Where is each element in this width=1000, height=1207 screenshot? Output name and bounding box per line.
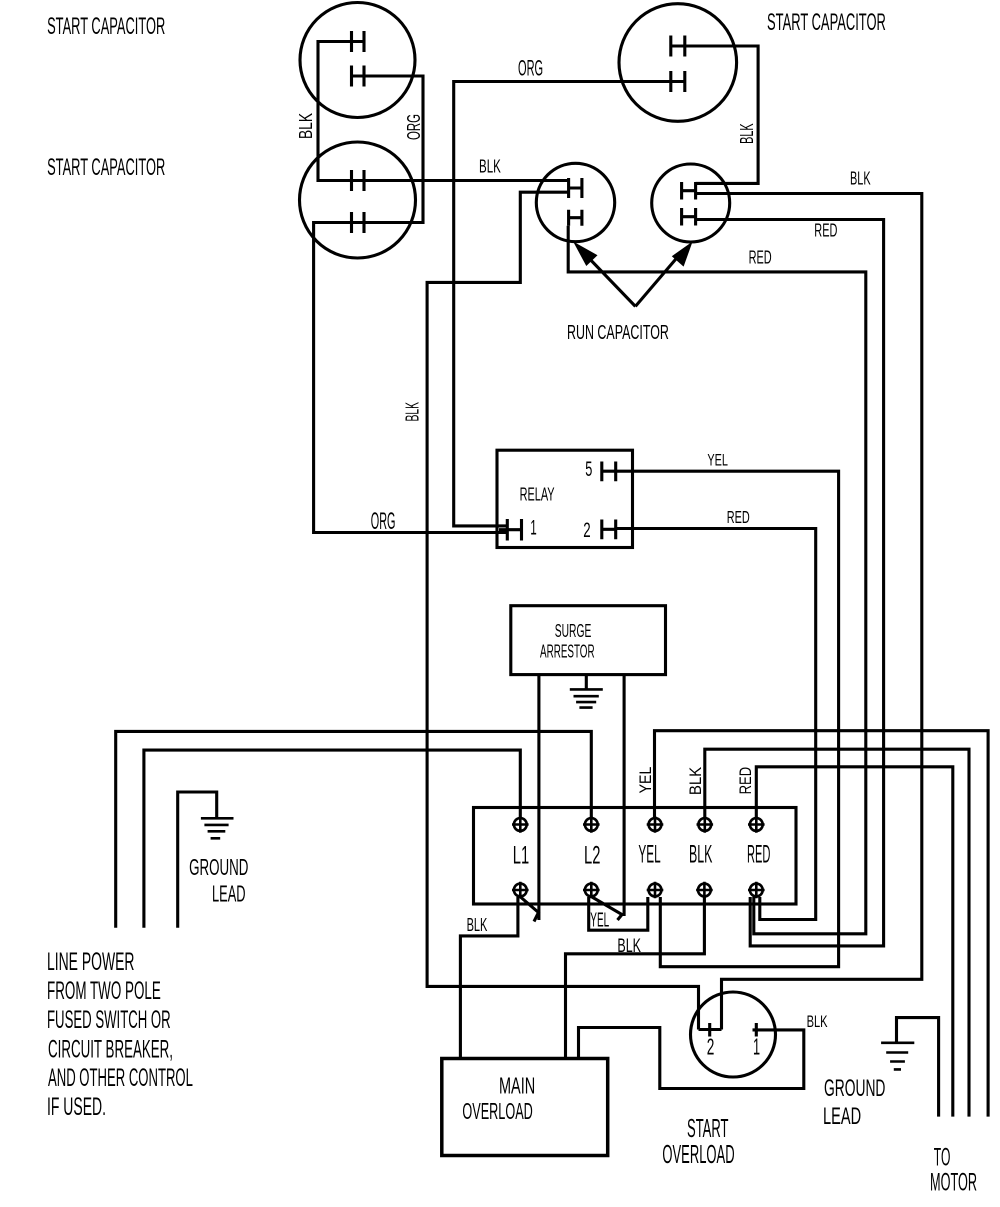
svg-text:1: 1 — [753, 1033, 760, 1059]
arrow to RC2 — [635, 253, 681, 306]
svg-text:BLK: BLK — [850, 169, 871, 189]
wire ORG C1-B to C2-B — [364, 76, 423, 223]
wire ground lead (left) — [178, 792, 217, 928]
svg-text:YEL: YEL — [707, 451, 728, 470]
run capacitor RC2 (right small circle) — [652, 164, 730, 242]
wire BLK terminal bottom to main overload — [566, 897, 705, 1059]
svg-text:ORG: ORG — [371, 508, 396, 535]
svg-text:RED: RED — [747, 841, 770, 869]
wire BLK RC1 top to start overload pin 2 (long left vertical) — [427, 192, 698, 1029]
svg-text:START CAPACITOR: START CAPACITOR — [47, 13, 165, 40]
start capacitor C2 (mid-left circle) — [300, 142, 416, 258]
svg-text:LEAD: LEAD — [823, 1103, 861, 1130]
terminal RED top — [748, 816, 765, 833]
svg-text:START CAPACITOR: START CAPACITOR — [47, 154, 165, 181]
svg-text:START CAPACITOR: START CAPACITOR — [767, 9, 886, 36]
wire RED RC1 bottom to RED terminal — [568, 226, 866, 934]
wire L1 line feed — [144, 750, 520, 928]
svg-text:BLK: BLK — [689, 841, 713, 869]
svg-text:ORG: ORG — [404, 114, 424, 140]
wire BLK C3-A to RC2 top — [685, 46, 758, 183]
svg-text:YEL: YEL — [638, 841, 660, 869]
svg-text:BLK: BLK — [807, 1013, 828, 1031]
svg-text:FROM TWO POLE: FROM TWO POLE — [47, 977, 161, 1005]
surge arrestor box — [511, 606, 666, 675]
ground symbol (left) — [201, 818, 234, 838]
svg-text:RED: RED — [814, 221, 837, 241]
start capacitor C3 (top-right circle) — [619, 4, 737, 122]
capacitor terminal C3-B — [671, 71, 685, 92]
terminal RED bottom — [748, 882, 765, 899]
svg-text:AND OTHER CONTROL: AND OTHER CONTROL — [48, 1064, 193, 1092]
capacitor terminal RC1-bottom — [569, 210, 582, 226]
capacitor terminal RC2-bottom — [682, 208, 696, 226]
svg-text:BLK: BLK — [617, 935, 641, 957]
wire BLK RC2 top to start overload pin 2 (far right) — [696, 194, 922, 1030]
svg-text:BLK: BLK — [403, 402, 423, 422]
relay pin 2 contact — [602, 520, 616, 540]
svg-text:MAIN: MAIN — [499, 1073, 535, 1099]
capacitor terminal C2-B — [352, 212, 365, 233]
svg-text:BLK: BLK — [296, 113, 316, 139]
wire L2 blade to surge lead — [592, 897, 622, 920]
terminal BLK top — [697, 816, 714, 833]
terminal YEL top — [647, 816, 664, 833]
svg-text:RUN CAPACITOR: RUN CAPACITOR — [567, 321, 669, 344]
svg-text:ARRESTOR: ARRESTOR — [540, 642, 595, 662]
wire main overload to start overload pin 1 — [579, 1028, 804, 1089]
start overload pin 2 — [699, 1023, 722, 1037]
svg-text:LINE POWER: LINE POWER — [47, 948, 135, 976]
wire ORG C2-B to relay pin 1 — [314, 223, 508, 533]
wire L1 blade to surge lead — [521, 897, 539, 922]
main overload box — [442, 1059, 608, 1156]
svg-text:IF USED.: IF USED. — [47, 1093, 106, 1121]
wire YEL terminal to motor — [655, 731, 989, 1117]
svg-text:GROUND: GROUND — [824, 1075, 885, 1102]
wire surge arrestor ground lead — [585, 675, 588, 689]
svg-text:ORG: ORG — [518, 56, 543, 81]
svg-text:5: 5 — [585, 458, 592, 481]
wire BLK L1 bottom to main overload — [460, 897, 518, 1059]
svg-text:MOTOR: MOTOR — [930, 1169, 977, 1197]
svg-text:RED: RED — [727, 507, 750, 527]
relay pin 5 contact — [602, 462, 616, 482]
svg-text:OVERLOAD: OVERLOAD — [662, 1139, 734, 1169]
terminal L2 bottom — [583, 882, 600, 899]
start overload pin 1 — [755, 1023, 758, 1037]
svg-text:GROUND: GROUND — [189, 854, 248, 880]
capacitor terminal C1-A — [352, 31, 365, 52]
svg-text:BLK: BLK — [686, 766, 705, 795]
wire BLK terminal to motor — [705, 749, 969, 1116]
svg-text:1: 1 — [530, 517, 537, 540]
svg-text:LEAD: LEAD — [212, 881, 246, 907]
svg-text:RED: RED — [749, 248, 772, 268]
svg-text:TO: TO — [934, 1144, 951, 1172]
svg-text:SURGE: SURGE — [555, 621, 592, 641]
wire RED terminal to motor — [756, 767, 953, 1117]
wire BLK C1-A to C2-A — [318, 42, 352, 181]
capacitor terminal RC1-top — [569, 178, 582, 198]
svg-text:2: 2 — [707, 1033, 715, 1059]
capacitor terminal C3-A — [671, 36, 685, 57]
wire YEL relay pin 5 to YEL terminal — [616, 471, 839, 967]
svg-text:RED: RED — [736, 767, 755, 795]
ground symbol (surge arrestor) — [570, 689, 603, 707]
svg-text:L1: L1 — [513, 842, 529, 870]
svg-text:FUSED SWITCH OR: FUSED SWITCH OR — [47, 1006, 171, 1034]
arrow to RC1 — [584, 253, 635, 306]
svg-text:YEL: YEL — [636, 767, 655, 794]
wire YEL jumper L2 to YEL terminal — [589, 897, 648, 930]
capacitor terminal RC2-top — [682, 182, 696, 200]
wire L2 line feed — [116, 731, 592, 927]
svg-text:BLK: BLK — [467, 914, 488, 935]
terminal YEL bottom — [647, 882, 664, 899]
wire ORG C3-B to relay pin 1 — [454, 82, 671, 526]
ground symbol (right) — [881, 1043, 914, 1070]
svg-text:OVERLOAD: OVERLOAD — [462, 1098, 532, 1124]
svg-text:BLK: BLK — [737, 123, 757, 144]
terminal L1 top — [512, 816, 529, 833]
run capacitor RC1 (left small circle) — [536, 163, 614, 241]
terminal L2 top — [583, 816, 600, 833]
wire surge arrestor right lead — [623, 675, 626, 916]
svg-text:2: 2 — [583, 519, 590, 542]
svg-text:CIRCUIT BREAKER,: CIRCUIT BREAKER, — [48, 1036, 173, 1064]
wire RED relay pin 2 to RED terminal — [616, 529, 816, 920]
wire surge arrestor left lead — [537, 675, 540, 920]
svg-text:RELAY: RELAY — [520, 484, 555, 505]
svg-text:YEL: YEL — [590, 910, 609, 932]
svg-text:BLK: BLK — [479, 156, 501, 177]
relay pin 1 contact — [499, 519, 522, 541]
capacitor terminal C2-A — [352, 170, 365, 191]
terminal BLK bottom — [696, 882, 713, 899]
wire RED RC2 bottom to RED terminal — [696, 220, 884, 946]
start overload circle — [691, 992, 776, 1077]
wire BLK C2-A to run capacitor RC1 — [364, 179, 569, 182]
terminal block box — [474, 808, 797, 905]
terminal L1 bottom — [512, 882, 529, 899]
relay box U1 — [497, 450, 633, 547]
wire ground lead (right) to motor — [897, 1018, 939, 1117]
svg-text:L2: L2 — [584, 842, 600, 870]
start capacitor C1 (top-left circle) — [300, 3, 415, 118]
capacitor terminal C1-B — [352, 66, 365, 87]
